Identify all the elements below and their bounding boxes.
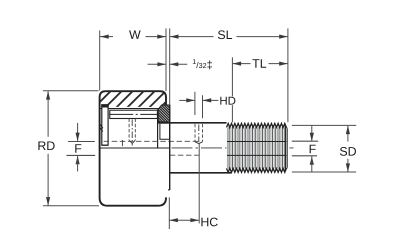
roller outer ring outline [106, 91, 166, 105]
dim TL [233, 63, 251, 65]
staking mark on roller left wall [100, 125, 103, 132]
end plate (left retaining washer) [102, 105, 108, 145]
wrench flat lines across thread [227, 141, 286, 143]
svg-text:RD: RD [37, 139, 55, 153]
dim 1/32 end clearance [148, 63, 166, 65]
dim W [100, 36, 113, 38]
extension line stud end [287, 28, 289, 122]
svg-text:SL: SL [217, 28, 232, 42]
dim HC [169, 219, 199, 221]
flange right face [169, 105, 171, 190]
outer ring section hatch [100, 91, 166, 108]
dim RD extension lines [43, 90, 99, 92]
stud shank bottom [170, 172, 232, 174]
stud end face [284, 126, 286, 170]
flange/stud shoulder dark band [158, 122, 170, 124]
hidden vertical lube hole in stud [194, 124, 196, 142]
stud axis centerline [172, 147, 294, 149]
extension line flange face [169, 28, 171, 104]
svg-text:F: F [74, 142, 82, 156]
dim RD [47, 91, 49, 137]
flange hatched section [158, 105, 170, 122]
hidden axial bore lines [104, 140, 199, 142]
extension line roller face [165, 28, 167, 91]
dim HC extension lines [168, 197, 170, 229]
dim W extension line left [99, 31, 101, 91]
svg-text:1/32‡: 1/32‡ [192, 59, 212, 72]
threaded stud portion [227, 123, 287, 172]
dim SD extension lines [292, 124, 356, 126]
extension line TL thread start (gap behind HD text) [231, 57, 233, 96]
flange lower box [160, 124, 170, 140]
svg-text:F: F [309, 142, 317, 156]
stud shank top [170, 122, 227, 124]
cross hole center tick [121, 140, 123, 146]
svg-text:SD: SD [339, 145, 356, 159]
dim SD [347, 126, 349, 142]
svg-text:W: W [129, 28, 141, 42]
dim F right [311, 126, 313, 142]
hidden vertical lube hole in head [128, 119, 130, 141]
svg-text:TL: TL [252, 57, 267, 71]
needle roller band [110, 110, 158, 118]
end plate bottom edge [102, 144, 108, 146]
flange bottom rim tick [168, 189, 170, 191]
dim F left [77, 123, 79, 141]
dim HD [179, 99, 195, 101]
section boundary at centerline (roller half-section) [100, 147, 169, 149]
stud head right edge [157, 109, 159, 148]
HD extension ticks [194, 92, 196, 115]
svg-text:HC: HC [200, 215, 218, 229]
dim SL [170, 36, 214, 38]
needle band center dash-dot [109, 113, 158, 115]
svg-text:HD: HD [219, 96, 236, 108]
outer ring bore line [100, 108, 161, 110]
